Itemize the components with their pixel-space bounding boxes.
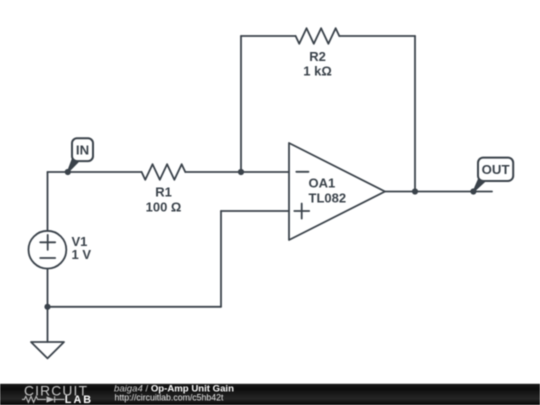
wire plus-input vertical [220, 211, 222, 307]
voltage source V1 circle [29, 231, 67, 269]
op-amp U1 triangle [289, 143, 385, 240]
wire V1 bottom vertical [47, 269, 49, 342]
node feedback/input junction dot [238, 169, 244, 175]
node IN junction dot [65, 169, 71, 175]
node ground junction dot [44, 304, 50, 310]
svg-text:LAB: LAB [65, 394, 93, 405]
node OUT junction dot [470, 188, 476, 194]
wire feedback left vertical [240, 36, 242, 172]
logo resistor-diode glyph [22, 396, 65, 402]
wire bottom horizontal [48, 306, 222, 308]
wire input horizontal right [185, 171, 289, 173]
flag IN [68, 138, 94, 172]
wire V1 top vertical [47, 172, 49, 231]
svg-text:R1: R1 [155, 185, 172, 200]
op-amp inverting input minus sign [296, 171, 308, 173]
V1 minus sign [40, 257, 55, 259]
wire output horizontal [385, 191, 492, 193]
svg-text:OA1: OA1 [309, 175, 336, 190]
wire feedback top left segment [241, 35, 296, 37]
svg-text:1 V: 1 V [72, 247, 92, 262]
svg-text:1 kΩ: 1 kΩ [303, 64, 332, 79]
svg-text:http://circuitlab.com/c5hb42t: http://circuitlab.com/c5hb42t [115, 392, 225, 402]
resistor R2 [296, 28, 340, 44]
op-amp non-inverting input plus sign [294, 204, 309, 219]
ground [31, 342, 64, 358]
V1 plus sign [40, 235, 55, 250]
wire feedback top right segment [339, 35, 415, 37]
svg-text:OUT: OUT [482, 162, 510, 177]
wire feedback right vertical [414, 36, 416, 192]
svg-text:TL082: TL082 [309, 191, 347, 206]
wire plus-input horizontal [221, 210, 289, 212]
node feedback/output junction dot [412, 188, 418, 194]
svg-text:R2: R2 [309, 49, 326, 64]
svg-text:100 Ω: 100 Ω [146, 200, 182, 215]
resistor R1 [142, 164, 186, 180]
flag OUT [473, 158, 513, 192]
svg-text:IN: IN [76, 142, 89, 157]
wire input horizontal left [48, 171, 142, 173]
